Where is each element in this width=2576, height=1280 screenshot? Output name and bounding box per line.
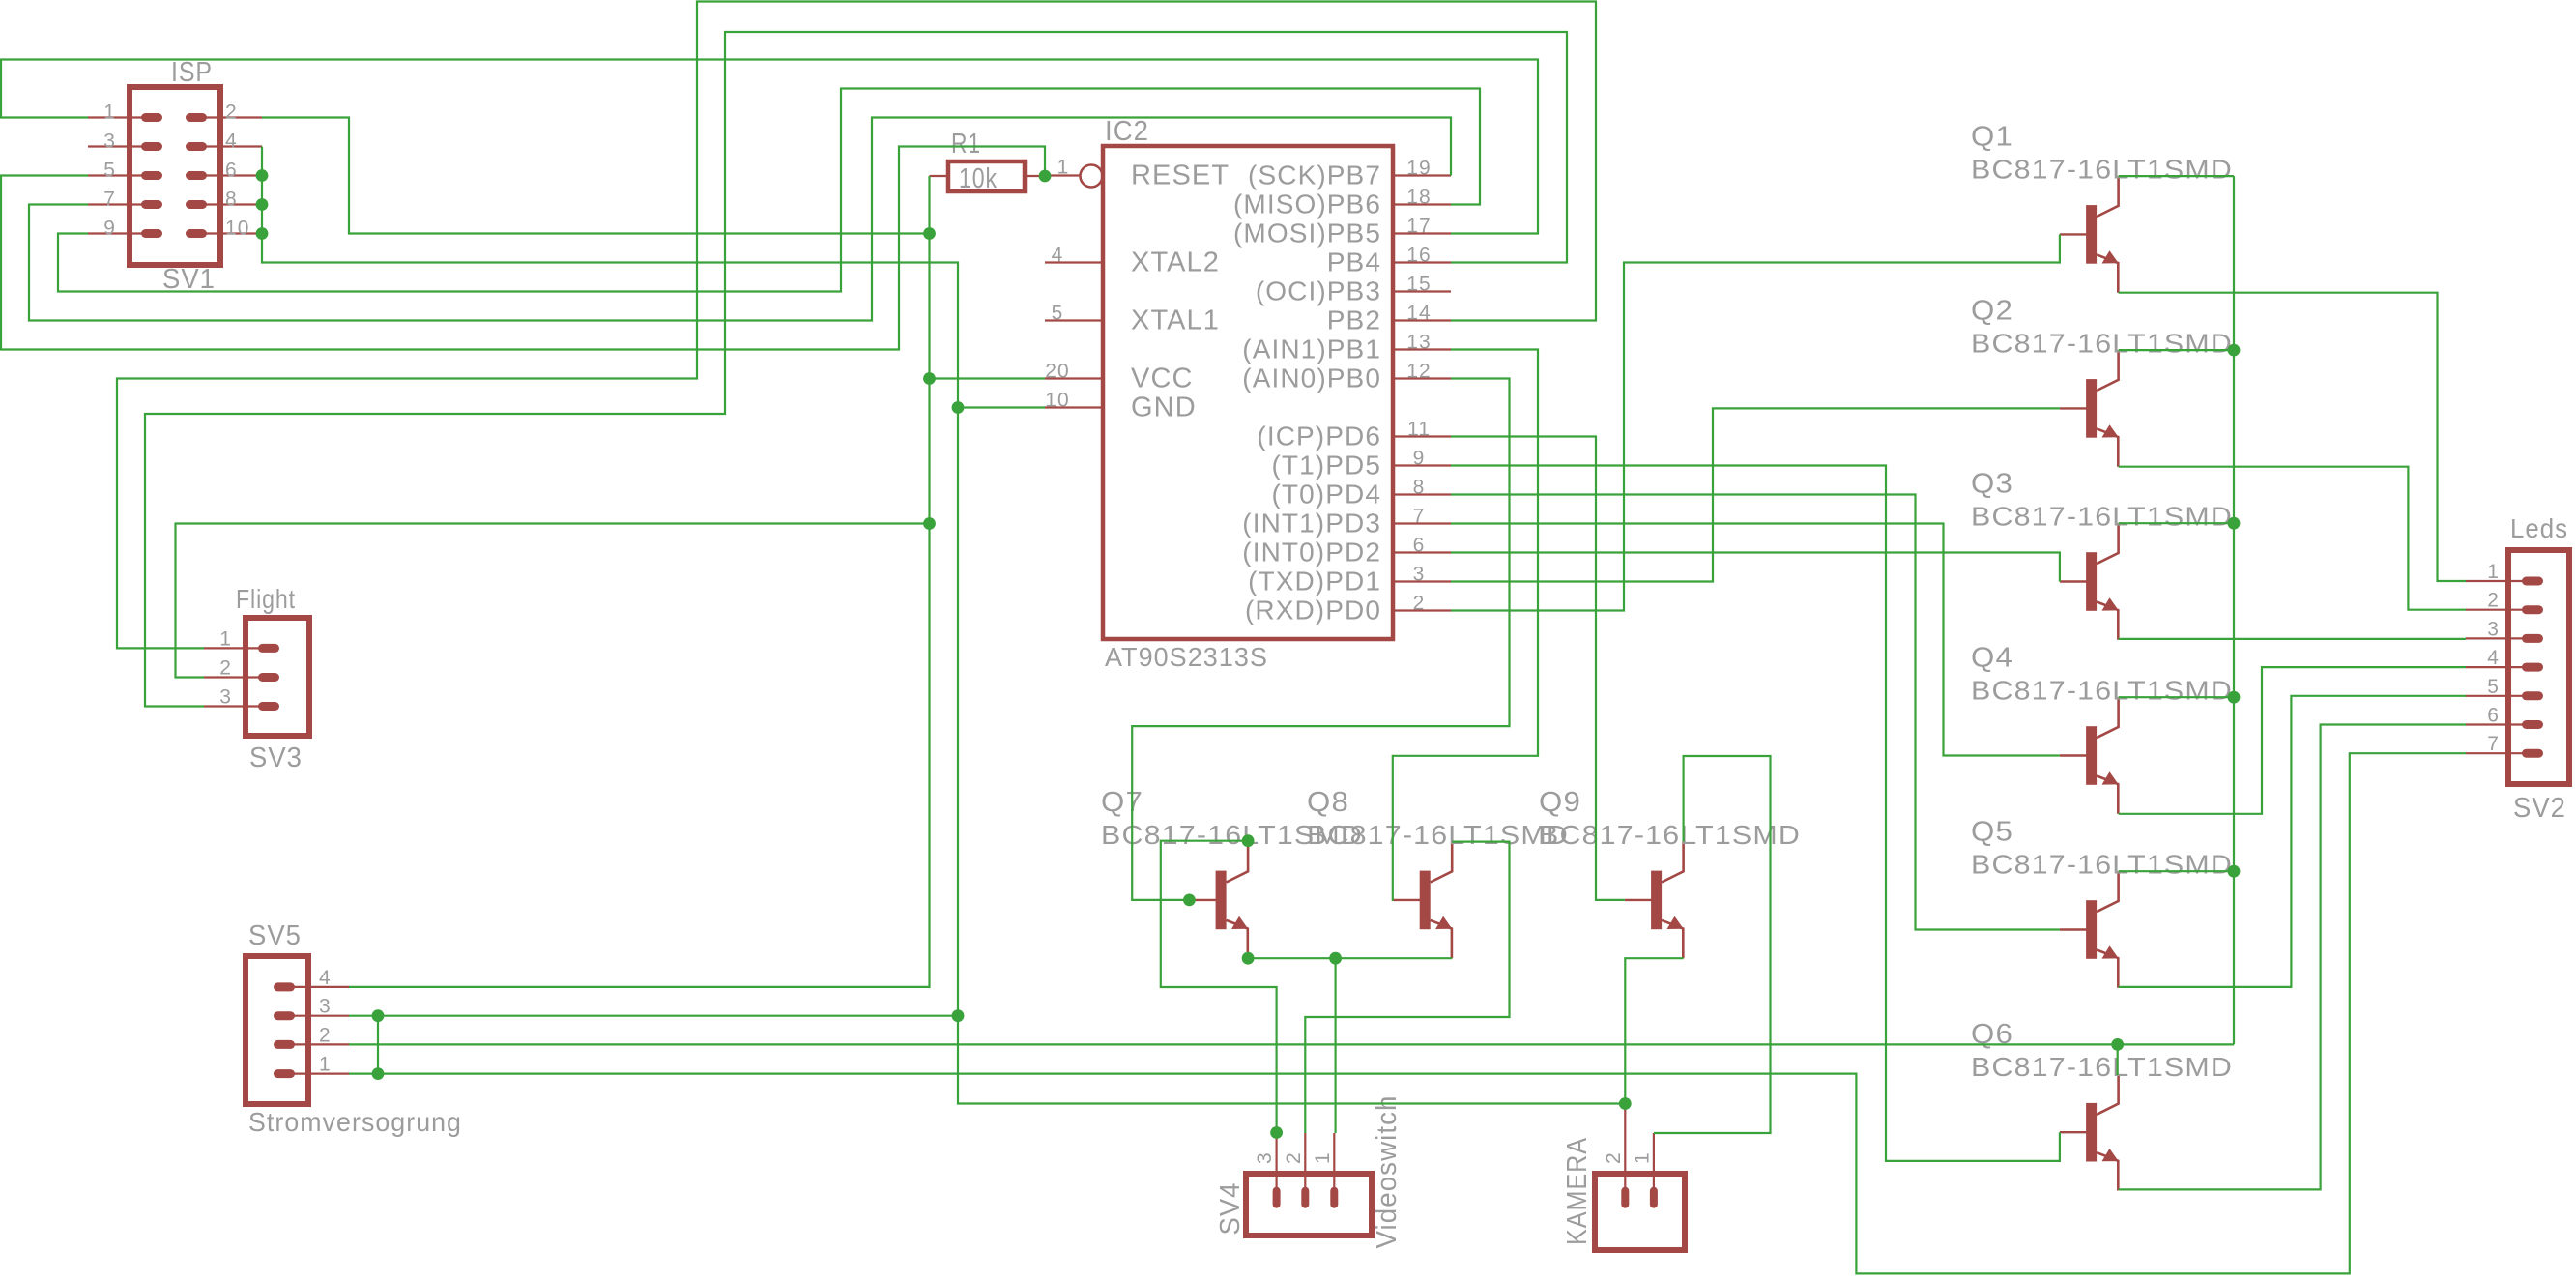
IC2 pin 14 PB2 lead (1393, 319, 1451, 321)
svg-text:3: 3 (2487, 618, 2500, 640)
svg-text:KAMERA: KAMERA (1562, 1137, 1593, 1245)
svg-text:17: 17 (1406, 216, 1432, 238)
svg-text:BC817-16LT1SMD: BC817-16LT1SMD (1971, 850, 2233, 880)
svg-text:3: 3 (1254, 1151, 1276, 1164)
junction SV4 pin3 (1270, 1126, 1283, 1139)
svg-text:10: 10 (1045, 390, 1070, 412)
svg-text:Q9: Q9 (1539, 787, 1581, 818)
svg-text:BC817-16LT1SMD: BC817-16LT1SMD (1971, 1052, 2233, 1082)
svg-text:PB2: PB2 (1327, 305, 1381, 335)
svg-text:19: 19 (1406, 158, 1432, 180)
svg-text:6: 6 (1413, 535, 1426, 557)
wire net PB2: SV3 pin1 to IC2 pin14 (117, 2, 1596, 649)
wire net VBUS: Q5 collector (2119, 870, 2234, 872)
wire net GND: SV5 pin3 stub (349, 1015, 958, 1017)
IC2 pin 1 RESET with bubble (1045, 174, 1080, 176)
SV1 pin 9 lead (88, 232, 145, 234)
junction Q4 collector (2228, 691, 2241, 704)
wire net LED1: Q1 emitter to SV2 pin1 (2119, 293, 2466, 581)
SV1 pin 6 lead (198, 174, 262, 176)
svg-text:2: 2 (219, 657, 232, 680)
IC2 pin 6 (INT0)PD2 lead (1393, 551, 1451, 553)
IC2 pin 19 (SCK)PB7 lead (1393, 174, 1451, 176)
wire net PD2: IC2 pin6 to Q3 base (1451, 553, 2060, 582)
transistor Q1 BC817-16LT1SMD (2060, 176, 2119, 293)
svg-text:XTAL1: XTAL1 (1131, 305, 1220, 336)
junction Q7 emitter (1242, 952, 1255, 965)
svg-text:BC817-16LT1SMD: BC817-16LT1SMD (1971, 502, 2233, 532)
SV2 pin 5 lead (2466, 695, 2523, 697)
junction SV5 link bottom (372, 1067, 385, 1080)
SV1 pin 4 pad (186, 142, 207, 151)
wire net VCC: ISP2 branch (262, 118, 930, 234)
svg-text:9: 9 (103, 218, 116, 240)
SV1 pin 5 pad (141, 171, 162, 180)
SV2 pin 6 lead (2466, 723, 2523, 725)
SV1 pin 1 pad (141, 113, 162, 122)
svg-text:2: 2 (1413, 593, 1426, 615)
svg-text:20: 20 (1045, 361, 1070, 383)
svg-text:(OCI)PB3: (OCI)PB3 (1256, 276, 1381, 306)
SV1 pin 3 pad (141, 142, 162, 151)
svg-text:(INT1)PD3: (INT1)PD3 (1242, 509, 1381, 538)
wire net VID3: Q9 collector to KAMERA pin1 (1654, 756, 1771, 1133)
IC2 box (1103, 146, 1393, 639)
SV3 pin 2 pad (258, 673, 279, 682)
svg-text:Q4: Q4 (1971, 643, 2013, 674)
SV4 pin 1 lead (1333, 1133, 1335, 1195)
svg-text:1: 1 (319, 1054, 332, 1076)
SV2 pin 3 lead (2466, 637, 2523, 639)
svg-text:6: 6 (225, 160, 238, 182)
svg-text:(MISO)PB6: (MISO)PB6 (1233, 189, 1381, 219)
SV1 pin 5 lead (88, 174, 145, 176)
svg-text:3: 3 (1413, 564, 1426, 586)
SV5 pin 2 lead (293, 1043, 349, 1045)
SV3 pin 2 lead (204, 676, 261, 678)
SV2 box (2508, 550, 2569, 784)
svg-text:Q1: Q1 (1971, 121, 2013, 152)
wire net PD5: IC2 pin9 to Q6 base (1451, 466, 2060, 1161)
svg-text:(T0)PD4: (T0)PD4 (1272, 480, 1382, 509)
svg-text:Q3: Q3 (1971, 469, 2013, 500)
svg-text:1: 1 (103, 102, 116, 124)
wire net LED3: Q3 emitter to SV2 pin3 (2119, 638, 2466, 640)
svg-text:AT90S2313S: AT90S2313S (1105, 642, 1268, 672)
svg-text:5: 5 (103, 160, 116, 182)
wire net PD1: IC2 pin3 to Q2 base (1451, 408, 2060, 581)
wire net VID2: Q8 collector to SV4 pin2 (1305, 842, 1509, 1133)
svg-text:Flight: Flight (236, 584, 296, 614)
svg-text:Videoswitch: Videoswitch (1372, 1095, 1403, 1249)
svg-text:VCC: VCC (1131, 364, 1194, 394)
svg-text:SV5: SV5 (248, 920, 302, 951)
IC2 pin 5 XTAL1 lead (1045, 319, 1103, 321)
IC2 pin 15 (OCI)PB3 lead (1393, 290, 1451, 292)
svg-text:2: 2 (1283, 1151, 1305, 1164)
svg-text:1: 1 (219, 627, 232, 650)
junction Q7 base (1183, 894, 1196, 907)
transistor Q9 BC817-16LT1SMD (1625, 842, 1684, 959)
IC2 pin 11 (ICP)PD6 lead (1393, 435, 1451, 437)
SV4 pin 2 lead (1304, 1133, 1306, 1195)
R1 left lead (930, 175, 949, 177)
junction Q3 collector (2228, 517, 2241, 530)
SV2 pin 6 pad (2522, 720, 2543, 729)
SV1 pin 10 pad (186, 229, 207, 238)
wire net GND: Q9 emitter to KAMERA pin2 (1625, 958, 1683, 1103)
svg-text:4: 4 (225, 131, 238, 153)
SV5 box (246, 956, 308, 1104)
IC2 pin 13 (AIN1)PB1 lead (1393, 348, 1451, 350)
svg-text:GND: GND (1131, 393, 1197, 423)
svg-text:7: 7 (103, 189, 116, 211)
junction GND/SV5 pin3 (952, 1009, 965, 1022)
SV2 pin 3 pad (2522, 634, 2543, 643)
svg-text:Q8: Q8 (1307, 787, 1349, 818)
SV1 pin 2 lead (198, 116, 262, 118)
SV4 pin 3 lead (1275, 1133, 1277, 1195)
SV3 box (246, 618, 309, 736)
wire net GND: down and to KAMERA pin2 (958, 1016, 1625, 1104)
IC2 pin 2 (RXD)PD0 lead (1393, 609, 1451, 611)
svg-text:1: 1 (1057, 157, 1070, 179)
svg-text:13: 13 (1406, 332, 1432, 354)
svg-text:(INT0)PD2: (INT0)PD2 (1242, 538, 1381, 567)
svg-text:2: 2 (1603, 1151, 1625, 1164)
svg-text:10: 10 (225, 218, 250, 240)
svg-text:2: 2 (319, 1024, 332, 1046)
svg-text:9: 9 (1413, 448, 1426, 470)
wire net PB0: IC2 pin12 to Q7 base (1132, 379, 1509, 900)
svg-text:Stromversogrung: Stromversogrung (248, 1107, 462, 1137)
svg-text:14: 14 (1406, 303, 1432, 325)
svg-text:(TXD)PD1: (TXD)PD1 (1248, 567, 1381, 596)
wire net PB4: SV3 pin3 to IC2 pin16 (145, 32, 1567, 707)
svg-text:ISP: ISP (171, 57, 213, 88)
wire net PD0: IC2 pin2 to Q1 base (1451, 234, 2060, 610)
transistor Q5 BC817-16LT1SMD (2060, 871, 2119, 988)
svg-text:4: 4 (2487, 647, 2500, 669)
KAMERA pin 2 lead (1624, 1104, 1626, 1196)
wire net LED4: Q4 emitter to SV2 pin4 (2119, 667, 2466, 814)
svg-text:18: 18 (1406, 187, 1432, 209)
svg-text:11: 11 (1407, 419, 1431, 441)
wire net LED2: Q2 emitter to SV2 pin2 (2119, 467, 2466, 610)
svg-text:SV2: SV2 (2513, 793, 2566, 824)
R1 body (948, 161, 1025, 191)
SV2 pin 4 pad (2522, 663, 2543, 672)
SV5 pin 1 pad (274, 1069, 295, 1078)
SV2 pin 2 lead (2466, 609, 2523, 611)
SV1 pin 10 lead (198, 232, 262, 234)
junction ISP pin10 (256, 227, 269, 240)
SV3 pin 3 pad (258, 702, 279, 711)
SV2 pin 1 pad (2522, 577, 2543, 586)
svg-text:10k: 10k (959, 163, 998, 194)
IC2 pin 9 (T1)PD5 lead (1393, 464, 1451, 466)
SV4 pin 1 pad (1330, 1187, 1338, 1208)
SV1 pin 9 pad (141, 229, 162, 238)
SV5 pin 3 lead (293, 1015, 349, 1017)
wire net VBUS: collector bus vertical (2233, 176, 2235, 1044)
SV4 box (1246, 1174, 1372, 1236)
wire net GND: down to SV5 pin3 (957, 408, 959, 1016)
wire net VOUT: common emitter row (1248, 957, 1452, 959)
wire net GND: stub to IC2 pin10 (958, 406, 1045, 408)
svg-text:(SCK)PB7: (SCK)PB7 (1248, 160, 1381, 190)
KAMERA pin 1 lead (1653, 1133, 1655, 1195)
SV1 pin 1 lead (88, 116, 145, 118)
junction Q6 collector (2111, 1038, 2124, 1051)
SV5 pin 3 pad (274, 1011, 295, 1020)
wire net VID1: Q7 collector to SV4 pin3 (1161, 841, 1277, 1133)
svg-text:1: 1 (1312, 1151, 1334, 1164)
svg-text:IC2: IC2 (1105, 116, 1149, 147)
svg-text:(MOSI)PB5: (MOSI)PB5 (1233, 218, 1381, 248)
transistor Q3 BC817-16LT1SMD (2060, 523, 2119, 640)
junction Q7 collector (1242, 834, 1255, 847)
wire net RST: ISP5 to R1/RESET (1, 147, 1045, 350)
KAMERA box (1595, 1174, 1685, 1250)
SV1 pin 6 pad (186, 171, 207, 180)
svg-text:XTAL2: XTAL2 (1131, 247, 1220, 278)
wire net VCC: R1 to SV5 pin4 vertical (349, 176, 930, 987)
svg-text:BC817-16LT1SMD: BC817-16LT1SMD (1971, 676, 2233, 706)
svg-text:5: 5 (2487, 676, 2500, 698)
svg-text:SV4: SV4 (1215, 1182, 1246, 1236)
transistor Q4 BC817-16LT1SMD (2060, 697, 2119, 814)
junction VCC/ISP2 (923, 227, 936, 240)
svg-text:SV3: SV3 (249, 742, 303, 773)
SV1 pin 2 pad (186, 113, 207, 122)
SV4 pin 3 pad (1273, 1187, 1281, 1208)
wire net VCC: stub to IC2 pin20 (930, 377, 1046, 379)
junction Q2 collector (2228, 344, 2241, 357)
svg-text:(T1)PD5: (T1)PD5 (1272, 451, 1382, 480)
SV3 pin 3 lead (204, 705, 261, 707)
svg-text:BC817-16LT1SMD: BC817-16LT1SMD (1971, 328, 2233, 358)
transistor Q6 BC817-16LT1SMD (2060, 1074, 2119, 1191)
junction ISP pin8 (256, 198, 269, 211)
SV2 pin 4 lead (2466, 666, 2523, 668)
svg-text:BC817-16LT1SMD: BC817-16LT1SMD (1539, 820, 1801, 850)
svg-text:2: 2 (2487, 590, 2500, 612)
svg-text:16: 16 (1406, 245, 1432, 267)
SV3 pin 1 lead (204, 647, 261, 649)
KAMERA pin 1 pad (1650, 1187, 1658, 1208)
transistor Q8 BC817-16LT1SMD (1394, 842, 1453, 959)
R1 right lead (1025, 175, 1045, 177)
svg-text:(AIN0)PB0: (AIN0)PB0 (1242, 364, 1381, 393)
IC2 pin 7 (INT1)PD3 lead (1393, 522, 1451, 524)
SV5 pin 4 lead (293, 986, 349, 988)
svg-text:(AIN1)PB1: (AIN1)PB1 (1242, 335, 1381, 364)
svg-text:3: 3 (103, 131, 116, 153)
SV2 pin 1 lead (2466, 580, 2523, 582)
SV1 pin 7 lead (88, 203, 145, 205)
IC2 pin 20 VCC lead (1045, 377, 1103, 379)
svg-text:1: 1 (1631, 1151, 1653, 1164)
wire net PD3: IC2 pin7 to Q4 base (1451, 524, 2060, 756)
IC2 pin 10 GND lead (1045, 406, 1103, 408)
SV1 pin 3 lead (88, 145, 145, 147)
wire net VBUS: Q3 collector (2119, 522, 2234, 524)
SV2 pin 5 pad (2522, 691, 2543, 700)
svg-text:2: 2 (225, 102, 238, 124)
junction GND/KAMERA pin2 (1619, 1097, 1632, 1110)
junction VOUT/SV4 pin1 (1329, 952, 1342, 965)
wire net LED6: Q6 emitter to SV2 pin6 (2119, 725, 2466, 1190)
wire net VBUS: SV5 pin2 row (349, 1043, 2234, 1045)
transistor Q2 BC817-16LT1SMD (2060, 350, 2119, 467)
SV1 pin 8 lead (198, 203, 262, 205)
wire net PB1: IC2 pin13 to Q8 base (1393, 350, 1538, 900)
wire net VCC: SV3 pin2 branch (176, 524, 930, 678)
SV1 pin 4 lead (198, 145, 262, 147)
junction VCC pin20 (923, 372, 936, 385)
wire net PD6: IC2 pin11 to Q9 base (1451, 437, 1625, 900)
junction ISP pin6 (256, 169, 269, 182)
svg-text:8: 8 (1413, 477, 1426, 499)
wire net PD4: IC2 pin8 to Q5 base (1451, 495, 2060, 930)
wire net MOSI: ISP1 to PB5 (1, 60, 1538, 234)
wire net GND: SV5 pin1 to SV2 pin7 loop (349, 753, 2466, 1273)
svg-text:3: 3 (319, 996, 332, 1018)
svg-text:PB4: PB4 (1327, 247, 1381, 277)
wire net VOUT: to SV4 pin1 (1334, 958, 1336, 1133)
svg-text:5: 5 (1052, 303, 1064, 325)
wire net GND: ISP4/6/8/10 rail (262, 147, 958, 408)
svg-text:SV1: SV1 (162, 264, 216, 295)
wire net LED5: Q5 emitter to SV2 pin5 (2119, 696, 2466, 987)
wire net VBUS: Q4 collector (2119, 696, 2234, 698)
SV1 box (130, 87, 220, 265)
wire net VBUS: Q2 collector (2119, 349, 2234, 351)
svg-text:12: 12 (1406, 361, 1432, 383)
svg-text:RESET: RESET (1131, 160, 1230, 191)
IC2 pin 12 (AIN0)PB0 lead (1393, 377, 1451, 379)
junction VCC/SV3 pin2 (923, 517, 936, 530)
IC2 pin 3 (TXD)PD1 lead (1393, 580, 1451, 582)
svg-text:6: 6 (2487, 705, 2500, 727)
SV1 pin 7 pad (141, 200, 162, 209)
SV5 pin 2 pad (274, 1040, 295, 1049)
SV1 pin 8 pad (186, 200, 207, 209)
svg-text:(ICP)PD6: (ICP)PD6 (1257, 422, 1381, 451)
IC2 pin 18 (MISO)PB6 lead (1393, 203, 1451, 205)
SV4 pin 2 pad (1301, 1187, 1309, 1208)
SV5 pin 4 pad (274, 982, 295, 991)
svg-text:4: 4 (1052, 245, 1064, 267)
svg-text:15: 15 (1406, 274, 1432, 296)
svg-text:1: 1 (2487, 561, 2500, 583)
SV2 pin 7 pad (2522, 749, 2543, 758)
SV2 pin 2 pad (2522, 605, 2543, 614)
wire net VBUS: Q6 collector stub (2117, 1044, 2119, 1075)
svg-text:BC817-16LT1SMD: BC817-16LT1SMD (1971, 154, 2233, 184)
wire net SCK: ISP7 to PB7 (29, 118, 1451, 321)
junction GND pin10 (952, 401, 965, 414)
svg-text:7: 7 (2487, 733, 2500, 755)
IC2 pin 4 XTAL2 lead (1045, 261, 1103, 263)
svg-text:7: 7 (1413, 506, 1426, 528)
junction Q5 collector (2228, 865, 2241, 878)
svg-text:(RXD)PD0: (RXD)PD0 (1245, 596, 1381, 625)
SV3 pin 1 pad (258, 644, 279, 653)
KAMERA pin 2 pad (1621, 1187, 1629, 1208)
svg-text:R1: R1 (951, 129, 981, 160)
wire net MISO: ISP9 to PB6 (58, 89, 1480, 292)
svg-text:Q5: Q5 (1971, 817, 2013, 848)
junction SV5 link top (372, 1009, 385, 1022)
IC2 pin 8 (T0)PD4 lead (1393, 493, 1451, 495)
junction R1/RESET (1039, 170, 1052, 183)
svg-text:8: 8 (225, 189, 238, 211)
svg-text:3: 3 (219, 686, 232, 709)
svg-text:BC817-16LT1SMD: BC817-16LT1SMD (1307, 820, 1569, 850)
svg-text:Q7: Q7 (1101, 787, 1143, 818)
transistor Q7 BC817-16LT1SMD (1189, 842, 1248, 959)
SV2 pin 7 lead (2466, 752, 2523, 754)
IC2 pin 16 PB4 lead (1393, 261, 1451, 263)
svg-text:Q2: Q2 (1971, 295, 2013, 326)
wire net GND: SV5 pin1-pin3 link (377, 1016, 379, 1074)
svg-text:4: 4 (319, 967, 332, 989)
IC2 pin 17 (MOSI)PB5 lead (1393, 232, 1451, 234)
SV5 pin 1 lead (293, 1072, 349, 1074)
wire net VBUS: Q1 collector (2119, 175, 2234, 177)
svg-text:Leds: Leds (2510, 513, 2568, 543)
